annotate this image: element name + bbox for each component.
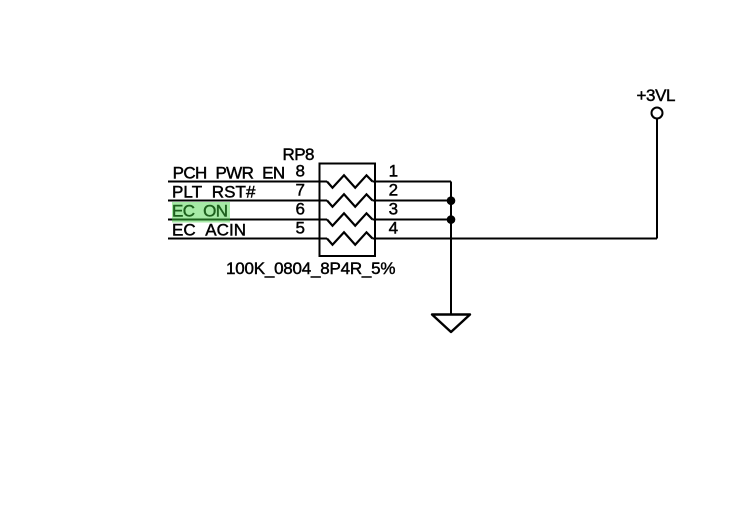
- svg-text:RP8: RP8: [283, 145, 315, 164]
- svg-text:PCH_PWR_EN: PCH_PWR_EN: [173, 163, 286, 182]
- svg-text:3: 3: [389, 200, 398, 219]
- svg-text:5: 5: [296, 219, 305, 238]
- svg-text:8: 8: [296, 162, 305, 181]
- svg-text:7: 7: [296, 181, 305, 200]
- svg-text:+3VL: +3VL: [637, 86, 676, 105]
- svg-text:2: 2: [389, 181, 398, 200]
- svg-text:4: 4: [389, 219, 398, 238]
- svg-text:1: 1: [389, 162, 398, 181]
- svg-text:PLT_RST#: PLT_RST#: [172, 182, 256, 201]
- svg-text:EC_ACIN: EC_ACIN: [172, 220, 246, 239]
- svg-text:6: 6: [296, 200, 305, 219]
- svg-text:100K_0804_8P4R_5%: 100K_0804_8P4R_5%: [226, 259, 396, 278]
